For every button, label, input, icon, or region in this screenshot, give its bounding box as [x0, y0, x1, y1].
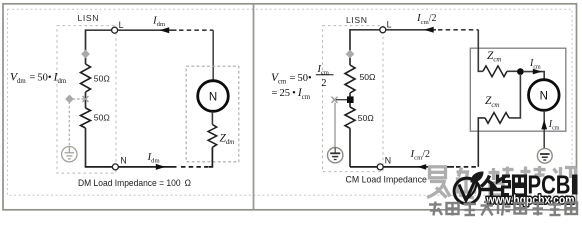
DM load dashed box — [186, 66, 239, 162]
wire: LISN vertical (top) — [349, 29, 351, 65]
panel divider — [253, 4, 255, 209]
big gray char 4 — [521, 166, 546, 179]
resistor R2 50ohm — [345, 107, 355, 128]
arrow I_dm (points left) — [160, 27, 170, 33]
wire: Zdm down to bottom wire — [209, 147, 212, 167]
wire between resistors — [85, 92, 87, 108]
big gray char 5 — [551, 167, 576, 181]
stub to ground — [336, 99, 347, 101]
svg-text:N: N — [385, 156, 391, 166]
wire: top horizontal solid — [86, 29, 177, 31]
junction X mark — [83, 96, 89, 102]
resistor R1 50ohm — [81, 64, 91, 92]
noise source N circle — [529, 80, 560, 111]
resistor Zcm top (horizontal) — [483, 66, 507, 77]
wire: bottom horizontal solid — [350, 166, 454, 168]
svg-text:50Ω: 50Ω — [94, 113, 111, 123]
hua glyph — [481, 175, 507, 196]
arrow I_dm bottom (points right) — [156, 164, 166, 170]
wire: top dashed segment — [179, 29, 213, 31]
wire to junction — [507, 70, 518, 72]
wire junction to source, corner down — [523, 72, 544, 80]
junction dot — [517, 68, 524, 75]
gray diamond node — [65, 95, 74, 104]
resistor R2 50ohm — [81, 108, 91, 128]
svg-text:LISN: LISN — [346, 15, 368, 25]
wire between resistors — [349, 93, 351, 107]
node L — [380, 27, 386, 33]
gray dashed drop to ground — [68, 102, 70, 147]
svg-text:50Ω: 50Ω — [358, 113, 375, 123]
junction square — [347, 96, 354, 103]
wire: Zcm bottom to bottom wire — [478, 118, 485, 167]
junction X mark — [332, 97, 338, 103]
svg-text:L: L — [119, 20, 124, 30]
CM load solid box — [470, 48, 566, 131]
svg-text:CM Load Impedance =: CM Load Impedance = — [346, 174, 435, 185]
ground (earth) symbol — [62, 147, 77, 162]
big gray char 2 — [457, 168, 475, 199]
wire: bottom horizontal solid — [85, 166, 177, 168]
node L — [112, 27, 118, 33]
svg-text:50Ω: 50Ω — [94, 74, 111, 84]
wire: LISN vertical (bottom) — [349, 128, 351, 167]
wire: bottom dashed segment — [456, 166, 478, 168]
wire: source down to ground — [543, 111, 545, 149]
wire: junction down and left to Zcm bottom — [509, 74, 520, 118]
LISN box (dashed) — [323, 26, 384, 172]
resistor Zdm — [208, 125, 217, 148]
logo circle — [454, 178, 480, 204]
drop to ground — [334, 103, 336, 148]
svg-text:50Ω: 50Ω — [360, 72, 377, 82]
probe diamond on wire — [346, 50, 355, 59]
big gray char 3 — [489, 167, 514, 196]
svg-text:N: N — [120, 156, 126, 166]
inner dotted frame — [8, 9, 573, 195]
wire: top corner into box — [478, 30, 483, 72]
resistor Zcm bottom (horizontal) — [485, 113, 509, 124]
wire: top dashed segment — [438, 29, 478, 31]
node N — [377, 164, 383, 170]
svg-text:2: 2 — [321, 78, 326, 89]
ground (earth) symbol bottom right — [537, 148, 552, 163]
node N — [112, 164, 118, 170]
big gray char 1 (yi) — [427, 167, 450, 198]
cut glyph bar — [572, 175, 578, 195]
bottom gray char row — [429, 202, 577, 216]
svg-text:N: N — [540, 90, 548, 102]
arrow I_cm (points right) — [533, 69, 542, 75]
wire: bottom dashed segment — [181, 166, 210, 168]
logo leaf — [471, 172, 484, 183]
ground (earth) symbol — [328, 148, 343, 163]
wire: LISN left vertical (top) — [85, 29, 87, 64]
wire: LISN left vertical (bottom) — [85, 128, 87, 167]
arrow I_cm up — [541, 120, 547, 130]
svg-text:N: N — [209, 91, 217, 103]
gray dashed stub to ground — [71, 98, 84, 100]
svg-text:L: L — [387, 19, 392, 29]
qiang glyph — [503, 176, 526, 195]
noise source N circle — [198, 81, 229, 112]
svg-text:DM Load Impedance = 100 Ω: DM Load Impedance = 100 Ω — [78, 177, 191, 188]
svg-text:LISN: LISN — [78, 13, 100, 23]
resistor R1 50ohm — [345, 65, 355, 93]
LISN box (dashed) — [57, 26, 116, 174]
probe diamond on wire — [81, 50, 90, 59]
wire: source to Zdm — [211, 112, 213, 125]
svg-text:Vcm = 50•: Vcm = 50• — [271, 72, 312, 86]
arrow I_cm/2 (points left) — [424, 27, 434, 33]
wire: right vertical down to noise source — [212, 30, 214, 81]
arrow I_cm/2 bottom (points left) — [417, 164, 426, 170]
wire: top horizontal solid — [350, 29, 436, 31]
